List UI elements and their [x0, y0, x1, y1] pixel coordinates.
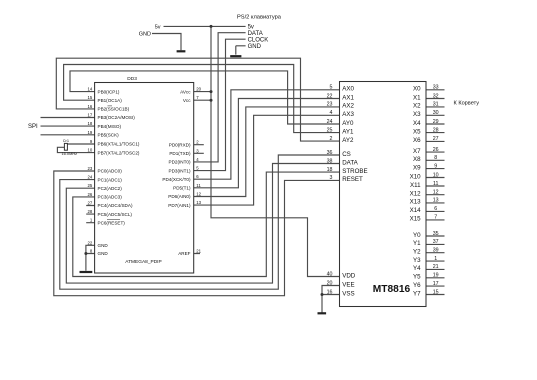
svg-text:PC5(ADC5/SCL): PC5(ADC5/SCL) [98, 212, 133, 217]
svg-text:6: 6 [434, 206, 437, 212]
svg-text:AY0: AY0 [342, 120, 354, 127]
svg-text:PD2(INT0): PD2(INT0) [169, 160, 191, 165]
svg-text:X15: X15 [410, 216, 422, 223]
svg-text:PC0(ADC0): PC0(ADC0) [98, 169, 123, 174]
svg-text:AX2: AX2 [342, 103, 354, 110]
svg-text:27: 27 [433, 136, 439, 142]
svg-text:20: 20 [196, 87, 201, 92]
svg-text:24: 24 [327, 119, 333, 125]
svg-text:39: 39 [433, 248, 439, 254]
svg-text:X9: X9 [413, 164, 421, 171]
svg-text:SPI: SPI [28, 124, 38, 130]
svg-text:Y6: Y6 [413, 282, 421, 289]
svg-text:Cr1: Cr1 [63, 138, 69, 143]
svg-text:1: 1 [434, 256, 437, 262]
svg-text:GND: GND [98, 251, 109, 256]
svg-text:22: 22 [88, 240, 93, 245]
svg-text:21: 21 [433, 264, 439, 270]
svg-text:21: 21 [196, 249, 201, 254]
svg-text:15: 15 [433, 289, 439, 295]
svg-text:9: 9 [434, 163, 437, 169]
svg-text:35: 35 [433, 231, 439, 237]
svg-text:MT8816: MT8816 [373, 284, 411, 295]
svg-text:17: 17 [433, 281, 439, 287]
svg-text:13: 13 [196, 200, 201, 205]
svg-text:2: 2 [330, 136, 333, 142]
svg-text:27: 27 [88, 201, 93, 206]
svg-text:ATMEGA8_PDIP: ATMEGA8_PDIP [125, 259, 161, 265]
svg-text:X13: X13 [410, 199, 422, 206]
svg-text:PB1(OC1A): PB1(OC1A) [98, 98, 123, 103]
svg-text:X11: X11 [410, 182, 421, 189]
svg-text:Y4: Y4 [413, 265, 421, 272]
svg-text:20: 20 [327, 280, 333, 286]
svg-text:23: 23 [88, 166, 93, 171]
svg-text:AY2: AY2 [342, 137, 354, 144]
svg-text:DD3: DD3 [127, 76, 137, 82]
svg-text:3: 3 [330, 175, 333, 181]
svg-text:DATA: DATA [248, 31, 263, 37]
svg-text:13: 13 [433, 198, 439, 204]
svg-text:Y1: Y1 [413, 240, 421, 247]
svg-text:19: 19 [433, 273, 439, 279]
svg-text:18: 18 [327, 167, 333, 173]
svg-text:Y0: Y0 [413, 232, 421, 239]
svg-text:X8: X8 [413, 156, 421, 163]
svg-text:X1: X1 [413, 94, 421, 101]
svg-text:X3: X3 [413, 111, 421, 118]
svg-text:4: 4 [330, 110, 333, 116]
svg-text:К Корвету: К Корвету [454, 101, 480, 107]
svg-text:28: 28 [88, 209, 93, 214]
svg-text:VDD: VDD [342, 272, 356, 279]
svg-text:AX1: AX1 [342, 94, 354, 101]
svg-text:7: 7 [434, 215, 437, 221]
svg-text:X12: X12 [410, 191, 422, 198]
svg-text:PB5(SCK): PB5(SCK) [98, 133, 120, 138]
svg-text:PC4(ADC4/SDA): PC4(ADC4/SDA) [98, 203, 133, 208]
svg-text:PB4(MISO): PB4(MISO) [98, 124, 122, 129]
svg-text:28: 28 [433, 127, 439, 133]
svg-text:12: 12 [433, 190, 439, 196]
svg-text:16.0MHz: 16.0MHz [62, 151, 78, 156]
svg-text:PD4(XCK/T0): PD4(XCK/T0) [162, 177, 191, 182]
svg-text:10: 10 [88, 148, 93, 153]
svg-text:17: 17 [88, 113, 93, 118]
svg-text:VSS: VSS [342, 290, 354, 297]
svg-text:X6: X6 [413, 137, 421, 144]
svg-text:PB0(ICP1): PB0(ICP1) [98, 89, 120, 94]
svg-text:Vcc: Vcc [183, 98, 191, 103]
svg-text:14: 14 [88, 87, 93, 92]
svg-text:X0: X0 [413, 86, 421, 93]
svg-text:Y3: Y3 [413, 257, 421, 264]
svg-text:VEE: VEE [342, 281, 354, 288]
svg-text:5v: 5v [248, 25, 254, 31]
svg-text:38: 38 [327, 158, 333, 164]
svg-text:5v: 5v [155, 24, 161, 30]
svg-text:STROBE: STROBE [342, 168, 367, 175]
svg-text:AX3: AX3 [342, 111, 354, 118]
svg-text:GND: GND [248, 44, 262, 50]
svg-text:15: 15 [88, 95, 93, 100]
svg-text:40: 40 [327, 271, 333, 277]
svg-text:AX0: AX0 [342, 86, 354, 93]
svg-text:PB7(XTAL2/TOSC2): PB7(XTAL2/TOSC2) [98, 150, 140, 155]
svg-text:Y7: Y7 [413, 290, 421, 297]
svg-text:Y5: Y5 [413, 274, 421, 281]
svg-text:PC2(ADC2): PC2(ADC2) [98, 186, 123, 191]
svg-text:X5: X5 [413, 128, 421, 135]
svg-text:12: 12 [196, 192, 201, 197]
svg-text:DATA: DATA [342, 159, 358, 166]
svg-text:AVcc: AVcc [180, 89, 191, 94]
svg-text:16: 16 [327, 289, 333, 295]
svg-text:Y2: Y2 [413, 249, 421, 256]
svg-text:X14: X14 [410, 207, 422, 214]
svg-text:26: 26 [88, 192, 93, 197]
svg-text:10: 10 [433, 172, 439, 178]
svg-text:25: 25 [88, 183, 93, 188]
svg-text:AY1: AY1 [342, 128, 354, 135]
svg-text:36: 36 [327, 150, 333, 156]
svg-text:PD5(T1): PD5(T1) [173, 186, 191, 191]
svg-text:PD6(AIN0): PD6(AIN0) [168, 194, 191, 199]
svg-text:19: 19 [88, 130, 93, 135]
svg-text:26: 26 [433, 147, 439, 153]
svg-text:PD7(AIN1): PD7(AIN1) [168, 203, 191, 208]
svg-text:32: 32 [433, 93, 439, 99]
svg-text:16: 16 [88, 104, 93, 109]
svg-text:PB3(OC2A/MOSI): PB3(OC2A/MOSI) [98, 115, 136, 120]
svg-text:25: 25 [327, 127, 333, 133]
svg-text:23: 23 [327, 102, 333, 108]
svg-text:GND: GND [139, 32, 151, 38]
svg-text:PC1(ADC1): PC1(ADC1) [98, 177, 123, 182]
svg-text:CS: CS [342, 151, 351, 158]
svg-text:18: 18 [88, 121, 93, 126]
svg-text:GND: GND [98, 243, 109, 248]
svg-text:PB6(XTAL1/TOSC1): PB6(XTAL1/TOSC1) [98, 142, 140, 147]
svg-text:29: 29 [433, 119, 439, 125]
svg-text:22: 22 [327, 93, 333, 99]
svg-text:8: 8 [434, 155, 437, 161]
svg-text:X7: X7 [413, 148, 421, 155]
svg-text:RESET: RESET [342, 176, 363, 183]
svg-text:X4: X4 [413, 120, 421, 127]
svg-text:X10: X10 [410, 173, 422, 180]
svg-text:AREF: AREF [178, 251, 190, 256]
svg-text:PC3(ADC3): PC3(ADC3) [98, 195, 123, 200]
svg-text:11: 11 [433, 181, 439, 187]
svg-text:24: 24 [88, 175, 93, 180]
svg-text:11: 11 [196, 183, 201, 188]
svg-text:CLOCK: CLOCK [248, 37, 269, 43]
svg-text:PD0(RXD): PD0(RXD) [169, 142, 191, 147]
svg-text:37: 37 [433, 239, 439, 245]
svg-text:5: 5 [330, 85, 333, 91]
svg-text:PB2(SS/OC1B): PB2(SS/OC1B) [98, 107, 130, 112]
svg-text:PD3(INT1): PD3(INT1) [169, 168, 191, 173]
svg-text:PD1(TXD): PD1(TXD) [169, 151, 191, 156]
svg-text:31: 31 [433, 102, 439, 108]
svg-text:30: 30 [433, 110, 439, 116]
svg-text:PC6(RESET): PC6(RESET) [98, 220, 126, 225]
svg-text:PS/2 клавиатура: PS/2 клавиатура [237, 14, 282, 20]
svg-text:33: 33 [433, 85, 439, 91]
svg-text:X2: X2 [413, 103, 421, 110]
